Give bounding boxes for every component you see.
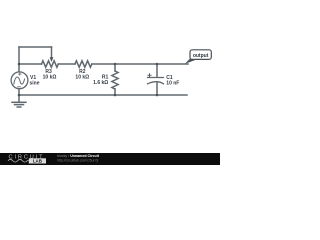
node A (junction V1 top) [18,63,21,66]
footer bar [0,153,220,165]
node flag "output" [185,50,212,64]
node (R1 top) [114,63,117,66]
svg-text:http://circuitlab.com/c/5ur7jt: http://circuitlab.com/c/5ur7jt [57,159,98,163]
wire [18,47,20,72]
node (V1 bottom / ground) [18,94,21,97]
resistor R2 [75,61,92,67]
node (R1 bottom) [114,94,117,97]
capacitor polarity + [148,73,152,77]
capacitor C1 [156,64,158,77]
svg-text:10 kΩ: 10 kΩ [75,74,89,80]
node (C1 bottom) [156,94,159,97]
ground [18,95,20,102]
voltage source V1 [11,72,28,89]
wire [114,89,116,95]
wire [19,94,187,96]
wire [51,47,53,58]
resistor R3 [42,61,59,67]
potentiometer arrow of R3 [50,57,54,62]
node (C1 top) [156,63,159,66]
svg-text:sine: sine [30,81,40,87]
wire [19,63,42,65]
resistor R1 [112,71,118,89]
svg-text:1.6 kΩ: 1.6 kΩ [93,80,108,86]
svg-text:10 nF: 10 nF [166,80,179,86]
CircuitLab logo [8,154,46,163]
wire [19,46,52,48]
svg-text:LAB: LAB [33,159,42,164]
svg-text:output: output [193,53,209,59]
wire [114,64,116,71]
footer text [57,154,100,162]
wire [59,63,76,65]
svg-text:10 kΩ: 10 kΩ [43,74,57,80]
wire [92,63,188,65]
wire [18,89,20,95]
